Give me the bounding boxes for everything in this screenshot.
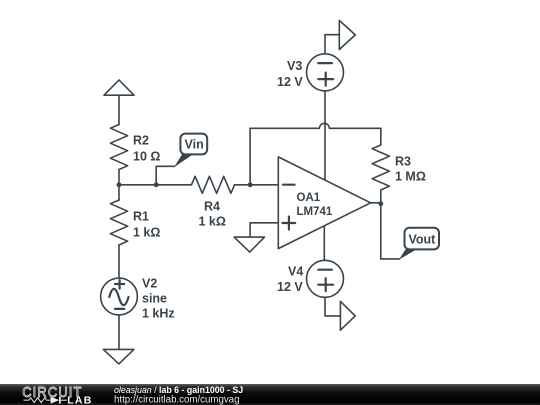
svg-text:LM741: LM741 [297,206,333,218]
svg-text:10 Ω: 10 Ω [133,150,160,164]
svg-text:oleasjuan / lab 6 - gain1000 -: oleasjuan / lab 6 - gain1000 - SJ [114,385,243,395]
svg-text:R3: R3 [395,155,411,169]
svg-text:12 V: 12 V [277,75,303,89]
svg-text:V2: V2 [142,277,157,291]
svg-text:sine: sine [142,292,167,306]
svg-text:1 kHz: 1 kHz [142,307,175,321]
svg-text:1 MΩ: 1 MΩ [395,170,426,184]
svg-text:http://circuitlab.com/cumgvag: http://circuitlab.com/cumgvag [114,395,239,405]
svg-text:V4: V4 [288,265,303,279]
svg-text:Vin: Vin [185,138,204,152]
svg-text:R2: R2 [133,134,149,148]
svg-text:12 V: 12 V [277,280,303,294]
svg-text:OA1: OA1 [297,192,321,204]
svg-text:LAB: LAB [67,394,92,405]
svg-text:1 kΩ: 1 kΩ [199,215,226,229]
svg-text:R4: R4 [204,200,220,214]
svg-text:1 kΩ: 1 kΩ [133,226,160,240]
svg-text:R1: R1 [133,210,149,224]
svg-text:V3: V3 [287,59,302,73]
svg-text:Vout: Vout [409,232,437,246]
